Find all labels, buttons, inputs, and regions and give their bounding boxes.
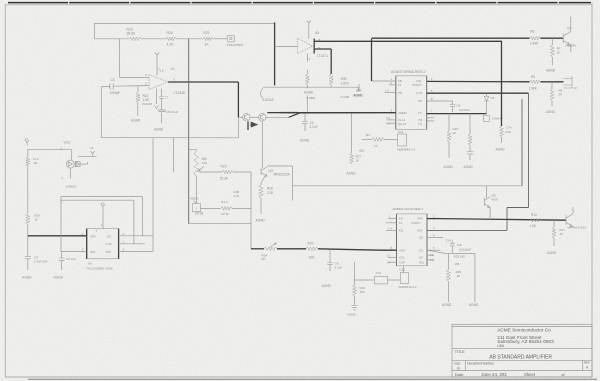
wire feedback right vertical xyxy=(330,49,332,74)
svg-text:2 1: 2 1 xyxy=(430,253,434,257)
svg-text:Salmsbury, AZ 85251-0903: Salmsbury, AZ 85251-0903 xyxy=(497,339,554,344)
svg-text:1K: 1K xyxy=(374,144,378,148)
IC U3 left pin16 xyxy=(387,119,396,121)
wire loop top y200.2 xyxy=(61,199,134,201)
pin 4 label U12 xyxy=(433,226,435,230)
label C4 xyxy=(310,121,318,129)
wire Q6 emitter down xyxy=(489,208,491,221)
wire vcc row y149.7 xyxy=(27,149,72,151)
label LT1345 xyxy=(174,91,185,95)
pin 7 label U1 xyxy=(158,68,164,73)
border frame left line xyxy=(4,5,6,377)
wire Q6 base from y185 line xyxy=(486,186,488,198)
title text street xyxy=(497,335,542,340)
wire R13 left lead down to U1 +in xyxy=(119,39,121,78)
pin 3 label U1 xyxy=(145,73,147,77)
wire x371.5 from U5 out xyxy=(371,39,373,81)
wire U2 pin3 xyxy=(61,251,87,253)
wire y137.7 continues xyxy=(153,137,238,139)
label R25 xyxy=(167,31,175,46)
label D3 xyxy=(491,96,495,100)
pin 15 label xyxy=(388,226,392,230)
transistor Q6 xyxy=(484,197,490,208)
svg-text:AGND: AGND xyxy=(347,313,357,317)
svg-text:QG 12: QG 12 xyxy=(398,122,407,126)
label R33 xyxy=(454,255,466,267)
svg-text:R2 A: R2 A xyxy=(221,200,228,204)
svg-text:R6: R6 xyxy=(530,29,534,33)
svg-text:C7: C7 xyxy=(165,96,169,100)
svg-text:1K: 1K xyxy=(457,274,461,278)
svg-text:1 8: 1 8 xyxy=(160,69,164,73)
svg-text:AGND: AGND xyxy=(546,110,556,114)
svg-text:R25: R25 xyxy=(167,31,173,35)
svg-text:TX: TX xyxy=(418,111,422,115)
wire R39 to gnd rail xyxy=(330,85,332,87)
pin 6 label U1 xyxy=(174,78,176,82)
wire loop x142.4 down xyxy=(141,197,143,236)
wire junction vertical x251 xyxy=(250,172,252,249)
label ADR5040 ic2 xyxy=(399,285,418,289)
IC U2 inside text xyxy=(90,229,112,254)
svg-text:0.047uF: 0.047uF xyxy=(460,248,472,252)
resistor R8 chain xyxy=(550,82,554,106)
label FL2 xyxy=(33,157,39,165)
svg-text:1K: 1K xyxy=(557,50,561,54)
svg-text:U11: U11 xyxy=(398,130,404,134)
label R29 xyxy=(34,214,40,222)
wire loop x59 down xyxy=(60,200,62,204)
label U11 below IC1 xyxy=(398,130,404,134)
ferrite bead FB1 xyxy=(484,116,490,122)
pin 2 label U3 xyxy=(391,81,393,85)
IC U12 right pin22 stub xyxy=(427,259,434,261)
svg-text:G.25: G.25 xyxy=(106,242,113,246)
resistor R6 xyxy=(530,36,541,40)
wire Y1 left xyxy=(355,279,375,281)
svg-text:VCOUT: VCOUT xyxy=(411,221,421,225)
label J2 xyxy=(574,86,578,90)
svg-text:1K: 1K xyxy=(205,43,210,47)
wire loop x61 up xyxy=(60,197,62,252)
label R17 xyxy=(560,228,566,236)
wire Q pair output row xyxy=(266,113,396,118)
svg-text:2.2K: 2.2K xyxy=(234,194,240,198)
svg-text:TD1(NHDZ): TD1(NHDZ) xyxy=(227,43,244,47)
svg-text:1 5: 1 5 xyxy=(388,226,392,230)
label Q5 xyxy=(568,226,587,230)
label U1 V- net xyxy=(158,109,167,113)
capacitor C14 xyxy=(450,241,455,254)
wire R6 to Q4 xyxy=(540,37,563,39)
wire R5 to J2 xyxy=(540,81,563,83)
title text usa xyxy=(497,344,505,348)
title block divider 3 xyxy=(452,370,592,372)
title text rev xyxy=(584,361,590,365)
power flag U1 V+ xyxy=(155,53,159,59)
wire vcc down to D2 xyxy=(71,150,73,161)
svg-text:R20: R20 xyxy=(308,241,314,245)
diode D3 xyxy=(484,93,489,113)
wire vertical x153 xyxy=(152,138,154,252)
wire y248.8 row c xyxy=(318,249,380,250)
title text date xyxy=(455,372,465,377)
label R5 xyxy=(529,75,538,91)
pin 10 label U3 xyxy=(386,121,390,125)
wire loop top y196.6 xyxy=(61,196,142,198)
power flag VBA xyxy=(25,137,30,145)
svg-text:A0525: A0525 xyxy=(190,196,199,200)
svg-text:AGND: AGND xyxy=(54,276,64,280)
svg-text:CS: CS xyxy=(419,248,423,252)
svg-text:ACME Semiconductor Co: ACME Semiconductor Co xyxy=(497,328,551,333)
svg-text:AGND: AGND xyxy=(22,276,32,280)
label R7 xyxy=(557,46,561,54)
border frame bottom line xyxy=(5,376,592,378)
IC U3 left pin3 xyxy=(267,112,396,114)
wire Q4 emitter down xyxy=(570,45,572,52)
wire U5 power stub xyxy=(308,26,310,39)
pin 2 label U2 xyxy=(82,232,84,236)
IC U2 box PIC xyxy=(87,229,119,259)
pin 4 label U5 xyxy=(308,57,310,61)
label R13 xyxy=(127,28,137,36)
svg-text:VCC: VCC xyxy=(64,140,72,144)
capacitor C6 chain xyxy=(327,249,333,271)
label 5.66M xyxy=(307,96,316,100)
wire vertical x173.5 xyxy=(173,138,175,172)
wire U5 out A xyxy=(314,40,502,42)
title text size xyxy=(454,361,461,365)
svg-text:1K: 1K xyxy=(356,159,360,163)
ground AGND left of IC1 xyxy=(354,84,364,98)
wire x351.6 down xyxy=(351,113,353,153)
svg-text:C5 1uF: C5 1uF xyxy=(66,257,76,261)
svg-text:AGND: AGND xyxy=(300,139,310,143)
svg-text:R39: R39 xyxy=(341,77,347,81)
label C4B xyxy=(234,190,240,198)
ground AGND below R27 xyxy=(347,172,357,176)
resistor R29 xyxy=(26,214,30,236)
diode D5 arrow xyxy=(248,122,258,131)
label Q4 xyxy=(565,43,576,47)
wire right hang vertical xyxy=(474,254,476,302)
label C6 xyxy=(335,262,343,270)
wire U15 to IC2 xyxy=(403,266,405,273)
IC U3 right pin y101 xyxy=(427,100,448,102)
svg-text:R5: R5 xyxy=(531,75,535,79)
svg-text:AGND: AGND xyxy=(304,91,314,95)
svg-text:3.16M: 3.16M xyxy=(341,95,350,99)
pin 7 label U2 xyxy=(123,240,125,244)
svg-text:AGND: AGND xyxy=(131,119,141,123)
IC U3 right pin stub y120.9 xyxy=(427,120,434,122)
pin 2 label U1 xyxy=(145,82,147,86)
test point TP1 xyxy=(227,35,234,42)
label U15 xyxy=(400,268,406,272)
svg-text:2.2uF: 2.2uF xyxy=(310,125,318,129)
wire Q4 collector up xyxy=(570,17,572,32)
compensation cap C7 xyxy=(159,97,164,99)
scan edge smudge bottom xyxy=(28,378,597,380)
title text of xyxy=(561,372,565,377)
title text company xyxy=(497,328,551,333)
svg-text:D3: D3 xyxy=(491,96,495,100)
svg-text:U5: U5 xyxy=(315,31,319,35)
diode D1 xyxy=(137,103,139,117)
wire pot bottom xyxy=(195,176,197,198)
wire x528.5 vertical xyxy=(528,93,530,207)
svg-text:R23: R23 xyxy=(221,165,227,169)
svg-text:AGND: AGND xyxy=(354,94,364,98)
wire switch row y208.7 xyxy=(201,207,252,209)
IC U3 left pin1 xyxy=(372,80,396,82)
svg-text:1 2: 1 2 xyxy=(387,254,391,258)
resistor R16 xyxy=(530,218,541,222)
title text sheet xyxy=(524,372,536,377)
LED D2 circle xyxy=(66,160,74,168)
wire U5 input vertical xyxy=(274,22,276,85)
svg-text:AGND: AGND xyxy=(464,165,474,169)
wire x501.5 from U5 outA xyxy=(501,41,503,126)
label LT1671 xyxy=(317,54,328,58)
wire R13 to R25 xyxy=(141,38,166,40)
inductor FL2 chain xyxy=(26,150,30,214)
svg-text:AGND: AGND xyxy=(322,284,332,288)
svg-text:PIC12C508A -SOIC: PIC12C508A -SOIC xyxy=(87,267,114,271)
power flag U1 V- xyxy=(154,106,158,109)
svg-text:V: V xyxy=(96,229,98,233)
label IC2 part xyxy=(393,207,424,211)
wire U5 +in xyxy=(275,46,298,48)
label R20 xyxy=(308,241,316,259)
svg-text:U6: U6 xyxy=(88,262,92,266)
wire U2 vcc stub xyxy=(102,210,104,229)
wire long vertical x188.7 xyxy=(188,39,190,224)
svg-text:C7a: C7a xyxy=(506,126,512,130)
svg-text:VDDIN: VDDIN xyxy=(398,111,407,115)
wire U2 pin7 right xyxy=(119,243,145,245)
svg-text:AGND: AGND xyxy=(496,148,506,152)
label 3.16M xyxy=(341,95,350,99)
label R27 xyxy=(356,155,362,163)
label VCC net xyxy=(64,140,72,144)
wire IC2 pin5 run xyxy=(427,250,475,253)
diode D4 xyxy=(75,162,80,167)
svg-text:150: 150 xyxy=(360,290,365,294)
svg-text:CP: CP xyxy=(418,99,422,103)
transistor Q2 circle xyxy=(259,114,266,121)
wire Q3 collector to y185 line xyxy=(267,165,292,167)
svg-text:52.3K: 52.3K xyxy=(221,212,229,216)
wire Q5 collector up xyxy=(572,207,574,214)
wire U2 pin5 right xyxy=(119,251,153,253)
wire y248.8 row b xyxy=(277,248,306,250)
resistor R22 feedback xyxy=(136,86,140,103)
svg-text:LT1345: LT1345 xyxy=(174,91,185,95)
resistor R26 xyxy=(221,207,232,211)
ground AGND below D1 xyxy=(131,119,141,123)
svg-text:W16: W16 xyxy=(492,197,499,201)
svg-text:2.94K: 2.94K xyxy=(530,42,539,46)
pin 8 label xyxy=(391,246,393,250)
svg-text:R16: R16 xyxy=(531,213,537,217)
ground AGND below R28 xyxy=(256,219,266,223)
svg-text:AOT: AOT xyxy=(417,228,423,232)
IC U3 right pin stub y117.8 xyxy=(427,117,434,119)
wire U5 out B xyxy=(314,48,331,50)
ground AGND below C5 xyxy=(154,128,164,132)
svg-text:2N3906: 2N3906 xyxy=(565,43,576,47)
svg-text:AGND: AGND xyxy=(256,219,266,223)
resistor R23 xyxy=(222,170,233,174)
label U5 xyxy=(315,31,319,35)
pin 22 label U12 xyxy=(430,258,434,262)
wire U1 pin1 stub xyxy=(161,89,163,96)
pin 1 label U2 xyxy=(101,223,103,227)
svg-text:C3: C3 xyxy=(111,78,115,82)
pin 6 label U2 xyxy=(123,232,125,236)
svg-text:1.96K: 1.96K xyxy=(529,87,538,91)
ground AGND right of rail xyxy=(353,94,363,98)
wire y185.8 left corner xyxy=(292,166,294,201)
svg-text:AGND: AGND xyxy=(154,128,164,132)
label 2N2222A xyxy=(262,98,274,102)
ground AGND below R17 xyxy=(547,251,557,255)
transistor Q4 2N3906 xyxy=(563,31,571,45)
resistor R25 xyxy=(166,37,176,41)
pin 1 label U3 xyxy=(391,77,393,81)
title block size cell divider xyxy=(464,360,466,370)
svg-text:4.3K: 4.3K xyxy=(505,130,511,134)
resistor R27 xyxy=(350,153,354,164)
IC U12 right pin5 wire xyxy=(427,249,441,251)
transistor Q3 xyxy=(261,167,267,176)
ground symbol below R32 xyxy=(351,306,358,310)
title text docnum xyxy=(467,361,495,365)
svg-text:4.2K: 4.2K xyxy=(167,43,175,47)
pin 3 label U3 xyxy=(391,109,393,113)
pin 7 label U3r xyxy=(431,110,433,114)
title text rev A xyxy=(586,365,589,369)
wire gnd rail y87 xyxy=(263,86,359,88)
svg-text:AGND: AGND xyxy=(444,165,454,169)
svg-text:1 4: 1 4 xyxy=(385,88,389,92)
pin 21 label U12 xyxy=(430,253,434,257)
svg-text:2.2K: 2.2K xyxy=(267,191,274,195)
svg-text:MPS2222A: MPS2222A xyxy=(274,173,291,177)
IC U12 left pin8 xyxy=(380,249,397,251)
crystal Y1 box xyxy=(375,276,388,284)
svg-text:AGND: AGND xyxy=(546,69,556,73)
wire between Q1 Q2 xyxy=(250,116,259,118)
pin 16 label U3 xyxy=(386,116,390,120)
svg-text:C8: C8 xyxy=(457,104,461,108)
wire main bus y235.8 xyxy=(28,235,87,237)
transistor Q1 circle xyxy=(243,114,250,121)
title text TITLE xyxy=(455,350,466,354)
pin 3 label U2 xyxy=(82,248,84,252)
label U1 xyxy=(171,67,175,71)
IC U12 right pin2 wire xyxy=(427,218,439,220)
pin A label xyxy=(431,77,433,81)
svg-text:AB STANDARD AMPLIFIER: AB STANDARD AMPLIFIER xyxy=(489,354,552,360)
pin 5 label U3r xyxy=(431,89,433,93)
title block outer box xyxy=(452,324,592,377)
capacitor C3 input xyxy=(109,83,113,90)
svg-text:AGND: AGND xyxy=(547,251,557,255)
svg-text:VDD: VDD xyxy=(399,248,405,252)
svg-text:2 2: 2 2 xyxy=(430,258,434,262)
svg-text:47: 47 xyxy=(560,232,564,236)
capacitor C9 xyxy=(467,152,474,161)
label R16 xyxy=(530,213,538,228)
svg-text:0.1uF: 0.1uF xyxy=(335,265,343,269)
svg-text:1K: 1K xyxy=(453,131,457,135)
wire x522 vertical xyxy=(521,99,523,186)
resistor R30 xyxy=(305,70,309,88)
svg-text:1000pF: 1000pF xyxy=(110,91,121,95)
IC U3 box xyxy=(396,76,427,130)
IC U3 inside text xyxy=(398,79,423,126)
wire U2 pin6 right xyxy=(119,235,153,237)
wire Q1 left lead xyxy=(238,116,242,118)
collector curve Q2 to loop xyxy=(261,89,263,98)
label C3 xyxy=(110,78,121,95)
wire R21 to TP1 xyxy=(213,38,227,40)
pin 12 label xyxy=(387,254,391,258)
ground AGND below R30 xyxy=(304,91,314,95)
ground AGND below R15 xyxy=(444,165,454,169)
border frame top dark line xyxy=(8,2,591,4)
wire R25 to R21 xyxy=(176,38,203,40)
pin 5 label U2 xyxy=(123,248,125,252)
IC U12 right pin6 stub xyxy=(427,237,443,239)
ground bar right xyxy=(356,87,361,91)
svg-text:5.66M: 5.66M xyxy=(307,96,316,100)
svg-text:J2: J2 xyxy=(574,86,578,90)
label Q1 Q2 MPS2222 xyxy=(278,110,298,115)
svg-text:V5S: V5S xyxy=(106,250,111,254)
IC U12 left pin12 xyxy=(388,257,397,259)
svg-text:B: B xyxy=(431,97,433,101)
wire D4 out xyxy=(81,162,88,164)
wire U12 out long y219.5 xyxy=(439,219,566,221)
svg-text:CP1B: CP1B xyxy=(195,212,203,216)
title block top double line xyxy=(452,325,592,327)
wire pot wiper row y172 xyxy=(200,171,251,173)
svg-text:1 4: 1 4 xyxy=(387,260,391,264)
svg-text:R3: R3 xyxy=(366,133,370,137)
resistor R39 xyxy=(329,74,333,85)
svg-text:GP1: GP1 xyxy=(90,250,96,254)
svg-text:F1: F1 xyxy=(398,83,402,87)
svg-text:Document Number: Document Number xyxy=(467,361,495,365)
title text city xyxy=(497,339,554,344)
svg-text:V1: V1 xyxy=(25,137,29,141)
capacitor C1 chain xyxy=(25,236,31,270)
IC U3 right pin y113.6 xyxy=(427,113,487,115)
svg-text:V2: V2 xyxy=(90,146,94,150)
svg-text:LT1671: LT1671 xyxy=(317,54,328,58)
wire pot jog xyxy=(189,149,197,151)
pin 14 label U3 xyxy=(385,88,389,92)
wire input cap left xyxy=(101,86,110,88)
label 1N4007 xyxy=(66,185,77,189)
pin 14 label xyxy=(387,260,391,264)
title text date value xyxy=(481,372,507,377)
svg-text:AGND: AGND xyxy=(347,172,357,176)
